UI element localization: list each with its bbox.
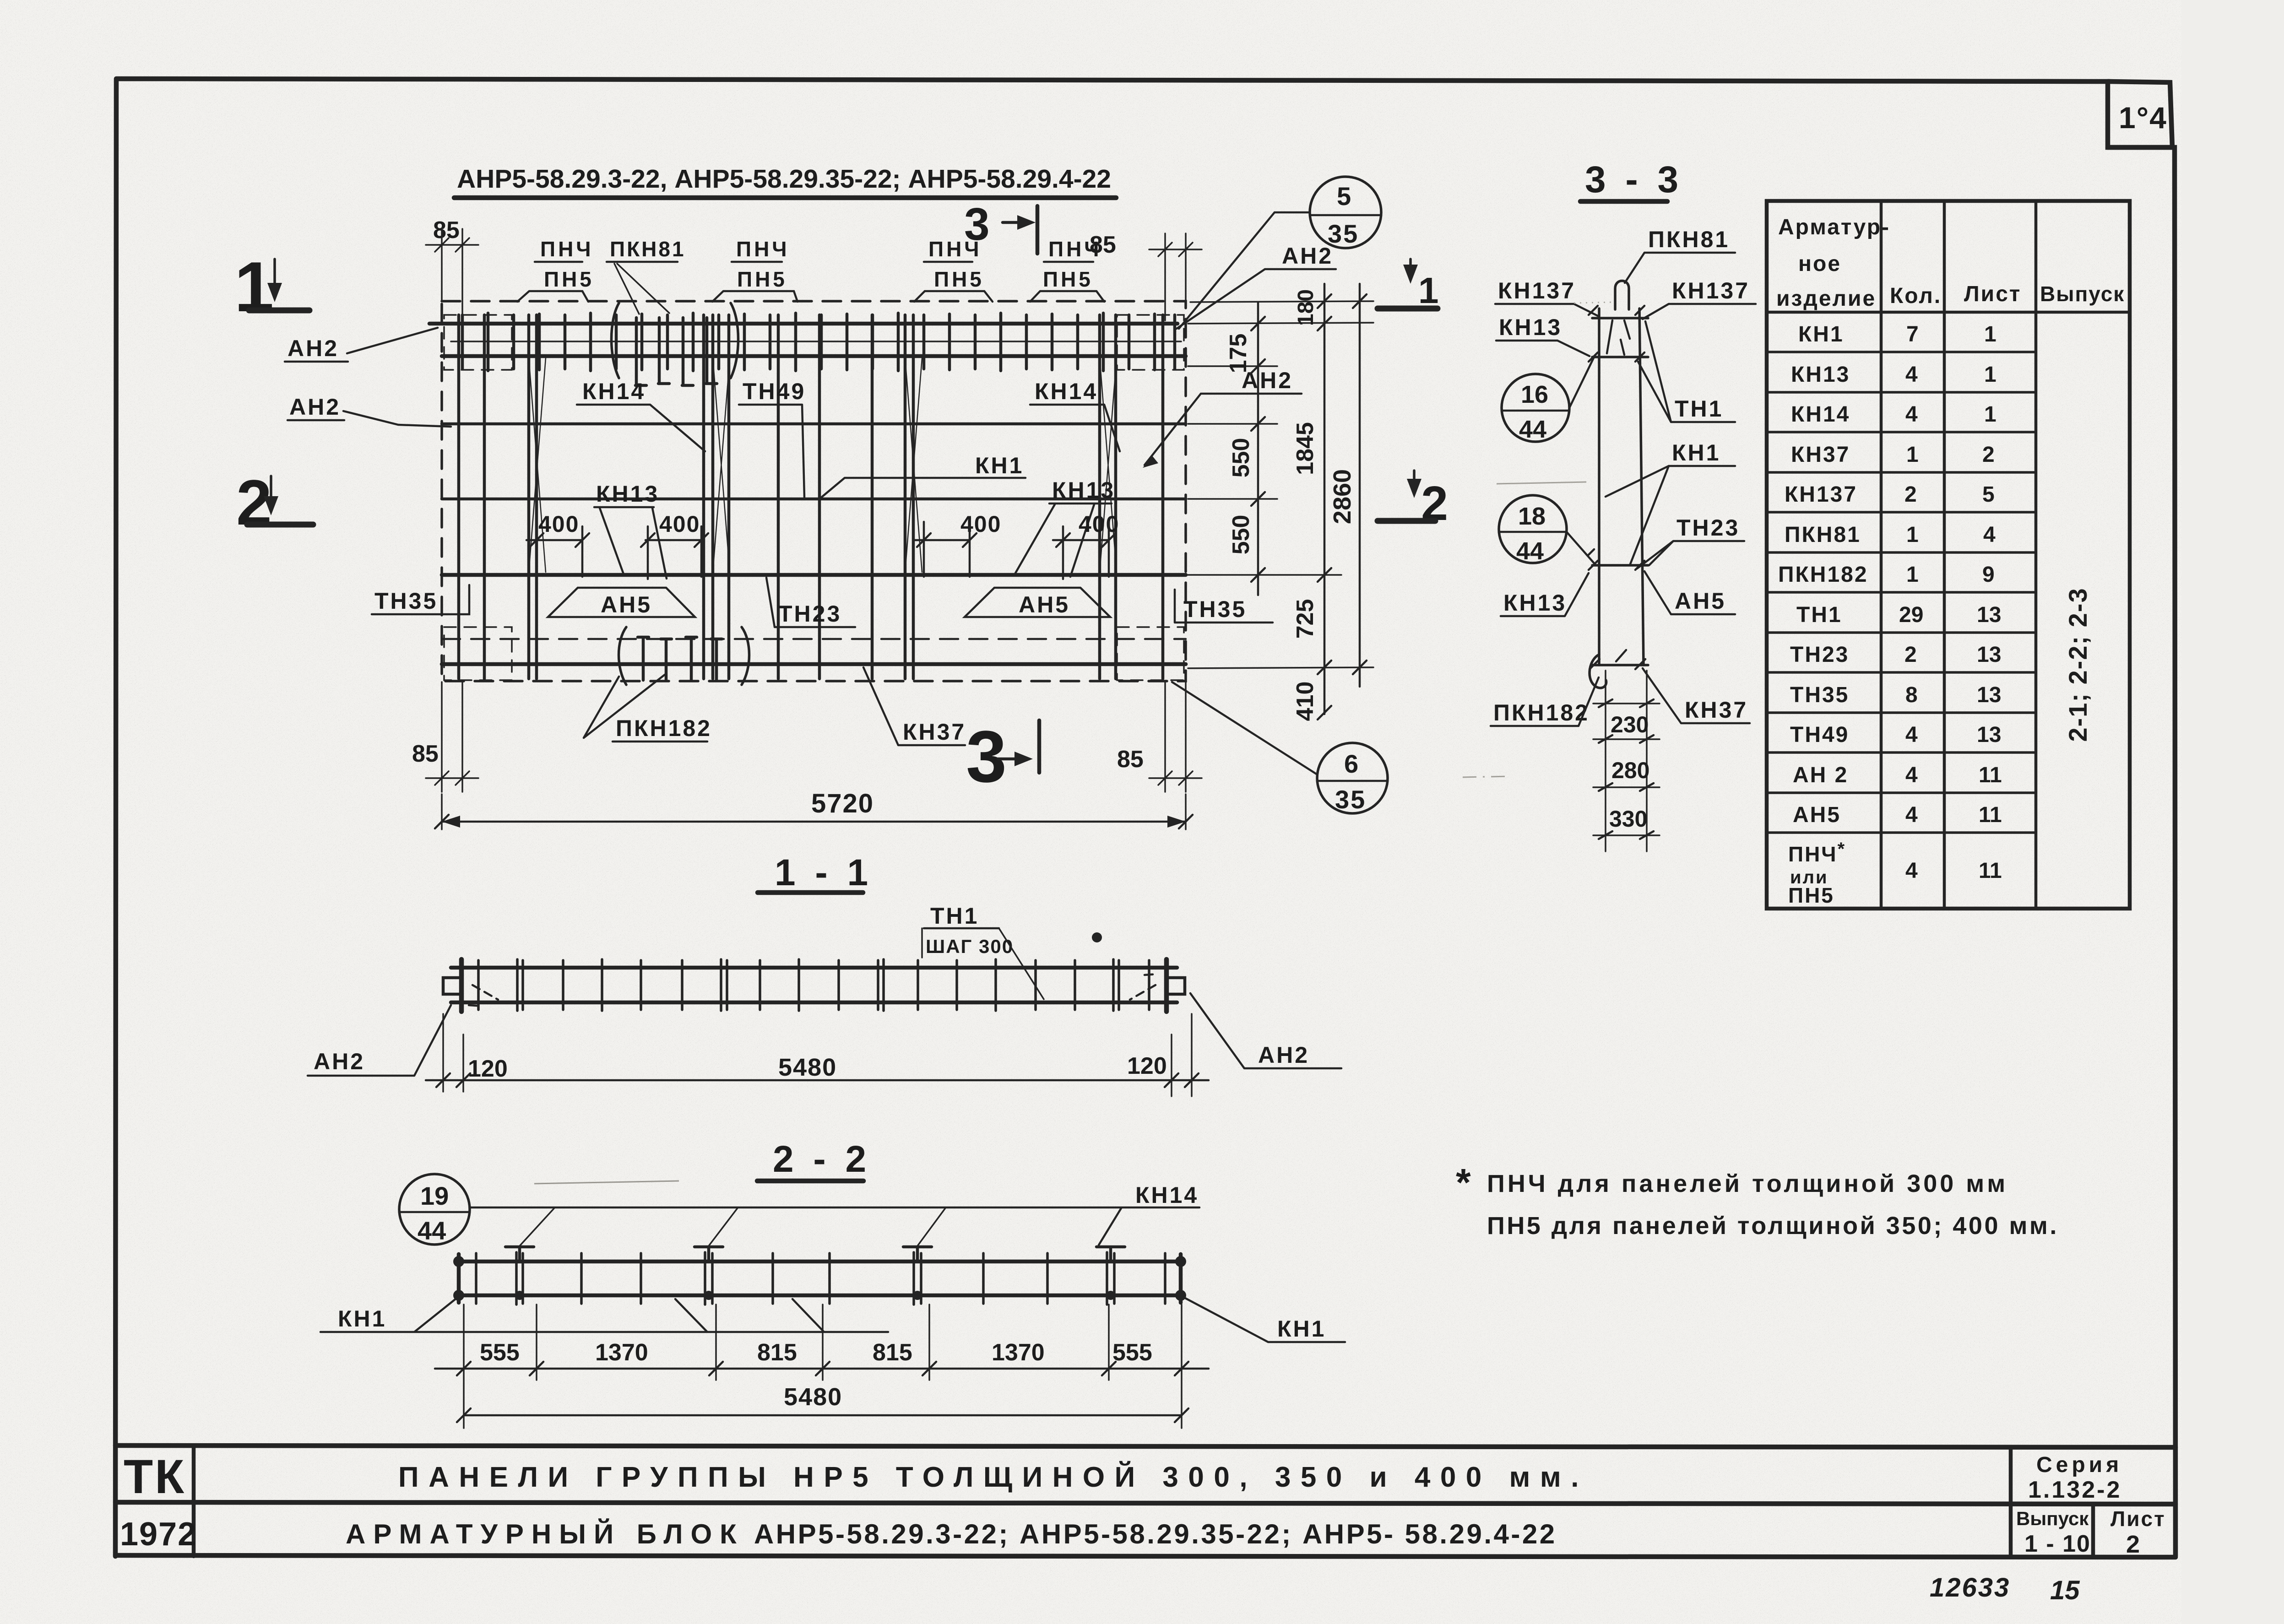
PKH81 hook group in top band [635, 318, 717, 385]
svg-text:13: 13 [1977, 683, 2001, 707]
svg-text:КН37: КН37 [1685, 697, 1748, 723]
svg-text:КН137: КН137 [1785, 482, 1857, 507]
svg-text:ПН5: ПН5 [934, 267, 984, 291]
svg-text:44: 44 [1519, 416, 1546, 443]
stirrup ticks on top band [462, 313, 1175, 371]
dim ticks 1-1 [436, 1073, 1199, 1087]
svg-text:2: 2 [1904, 643, 1917, 667]
svg-text:44: 44 [418, 1216, 446, 1245]
svg-text:4: 4 [1905, 763, 1918, 787]
faint pencil scratch in 3-3 [1497, 482, 1586, 484]
pin KH14 no4 [1096, 1247, 1125, 1261]
svg-text:АН2: АН2 [1258, 1042, 1309, 1068]
extension lines 2-2 [464, 1305, 1182, 1428]
column right edge [1639, 309, 1644, 665]
svg-text:АН2: АН2 [288, 336, 339, 361]
svg-text:Кол.: Кол. [1890, 284, 1942, 308]
label AH5 window2 trapezoid [965, 588, 1110, 617]
faint pencil scratch near 2-2 header [534, 1181, 679, 1184]
brace right of bottom hook group [742, 627, 749, 685]
leader TH1 [999, 928, 1044, 999]
svg-text:8: 8 [1905, 683, 1918, 707]
svg-text:4: 4 [1905, 363, 1918, 387]
svg-text:АН2: АН2 [314, 1049, 365, 1074]
svg-text:5: 5 [1982, 482, 1995, 507]
svg-text:ТК: ТК [124, 1450, 186, 1504]
svg-text:410: 410 [1292, 682, 1318, 721]
svg-text:ПКН182: ПКН182 [1493, 700, 1590, 725]
leaders PKH81 [614, 264, 669, 314]
svg-text:КН1: КН1 [1798, 322, 1844, 346]
svg-text:9: 9 [1982, 563, 1995, 587]
svg-text:Выпуск: Выпуск [2016, 1508, 2089, 1529]
svg-text:815: 815 [873, 1339, 912, 1366]
faint dotted lead from KH137 [1574, 302, 1615, 303]
dim chain 175-550-550 [1257, 302, 1259, 595]
svg-text:КН14: КН14 [582, 379, 646, 404]
svg-text:Лист: Лист [1964, 282, 2021, 306]
svg-text:КН13: КН13 [1499, 314, 1562, 340]
anchor bar AH2 top chord [429, 322, 1177, 326]
svg-text:280: 280 [1611, 758, 1649, 783]
top crossbar 2 [1592, 356, 1648, 358]
dashed anchor outline bottom-left [444, 627, 512, 680]
svg-text:4: 4 [1905, 803, 1918, 827]
beam 1-1 stirrups [478, 959, 1149, 1011]
svg-text:ПКН182: ПКН182 [616, 715, 712, 741]
dim line 1-1 [426, 1079, 1209, 1082]
svg-text:ПН5: ПН5 [737, 267, 787, 291]
svg-text:ПН5: ПН5 [1788, 883, 1834, 907]
beam 2-2 end bars [459, 1254, 1181, 1303]
dim chain 2-2 [435, 1368, 1209, 1370]
thin mid bar of top band [451, 341, 1181, 342]
brace left of bottom hook group [619, 627, 627, 685]
svg-text:18: 18 [1518, 503, 1546, 530]
title block vertical dividers [194, 1445, 2093, 1557]
svg-text:5480: 5480 [778, 1054, 837, 1081]
beam 1-1 end bars [461, 959, 1166, 1012]
svg-text:3 - 3: 3 - 3 [1585, 159, 1683, 200]
svg-text:180: 180 [1294, 289, 1318, 326]
svg-text:5720: 5720 [811, 789, 874, 818]
svg-text:11: 11 [1979, 859, 2002, 883]
dim ticks 3-3 [1599, 699, 1654, 839]
svg-text:АН5: АН5 [601, 592, 652, 617]
svg-text:400: 400 [960, 511, 1001, 537]
svg-text:ПКН81: ПКН81 [1648, 227, 1730, 252]
title block outline [115, 1445, 2175, 1557]
mesh bar row 5 window bottom [442, 573, 1186, 577]
top mesh bar [442, 354, 1186, 358]
svg-text:12633: 12633 [1930, 1573, 2010, 1602]
svg-text:ПКН81: ПКН81 [610, 237, 686, 261]
faint dash-dot pencil line left of 3-3 [1463, 776, 1511, 777]
beam 2-2 end weld dots [453, 1256, 464, 1267]
detail circle 6-35 [1317, 743, 1388, 813]
svg-text:ТН49: ТН49 [743, 379, 806, 404]
table row lines [1767, 352, 2036, 833]
svg-text:13: 13 [1977, 603, 2001, 627]
section mark 2 right [1413, 471, 1416, 488]
svg-text:ное: ное [1798, 252, 1841, 276]
svg-text:555: 555 [480, 1339, 520, 1366]
svg-text:16: 16 [1521, 381, 1548, 408]
svg-text:ПН5: ПН5 [544, 267, 594, 291]
stirrup weld dots 2-2 [515, 1291, 524, 1300]
svg-text:2: 2 [1982, 443, 1995, 467]
svg-text:АН5: АН5 [1675, 588, 1726, 614]
table outer border [1767, 201, 2130, 909]
detail circle 19-44 [399, 1174, 470, 1245]
svg-text:5480: 5480 [784, 1383, 842, 1411]
dashed weld mark left [469, 985, 498, 1006]
top crossbar 1 [1592, 317, 1648, 319]
extension lines 1-1 [443, 1014, 1192, 1096]
cross ticks mid [1589, 549, 1644, 570]
svg-text:ТН1: ТН1 [1675, 396, 1723, 422]
bottom crossbar [1592, 664, 1648, 666]
leader circle 16-44 [1569, 358, 1594, 408]
svg-text:1845: 1845 [1292, 422, 1318, 475]
leader to detail circle 5-35 [1179, 212, 1310, 329]
right scan edge shading [2181, 0, 2284, 1624]
svg-text:АНР5-58.29.3-22, АНР5-58.29.35: АНР5-58.29.3-22, АНР5-58.29.35-22; АНР5-… [457, 164, 1111, 194]
svg-text:ТН35: ТН35 [374, 588, 438, 614]
svg-text:АН2: АН2 [1282, 243, 1333, 269]
column left edge [1598, 309, 1600, 665]
svg-text:550: 550 [1228, 438, 1254, 478]
dim chain 180-1845-725-410 [1324, 284, 1326, 714]
dim ticks 2-2 [457, 1362, 1188, 1375]
detail circle 18-44 [1499, 495, 1567, 563]
svg-text:КН137: КН137 [1498, 278, 1576, 303]
panel outline dashed [442, 301, 1186, 681]
brace right of hook group [731, 303, 738, 378]
svg-text:400: 400 [538, 511, 579, 537]
svg-text:555: 555 [1112, 1339, 1152, 1366]
svg-text:КН37: КН37 [1791, 443, 1850, 467]
svg-text:ПНЧ: ПНЧ [736, 237, 790, 261]
svg-text:ТН35: ТН35 [1790, 683, 1849, 707]
svg-text:КН1: КН1 [1277, 1316, 1326, 1342]
bent bar cross window1 right [713, 358, 730, 572]
svg-text:1972: 1972 [120, 1516, 197, 1553]
svg-text:1: 1 [1984, 322, 1996, 346]
beam 1-1 left anchor hook [443, 978, 461, 994]
leader to detail circle 6-35 [1172, 682, 1317, 774]
svg-text:ТН23: ТН23 [778, 601, 841, 627]
svg-text:85: 85 [1090, 232, 1116, 258]
pin KH14 no2 [694, 1247, 723, 1261]
svg-text:КН1: КН1 [338, 1306, 386, 1332]
svg-text:ПНЧ*: ПНЧ* [1788, 839, 1846, 866]
svg-text:120: 120 [468, 1056, 508, 1082]
svg-text:2-1; 2-2; 2-3: 2-1; 2-2; 2-3 [2063, 587, 2092, 742]
svg-text:ПАНЕЛИ ГРУППЫ НР5 ТОЛЩИНОЙ: ПАНЕЛИ ГРУППЫ НР5 ТОЛЩИНОЙ 300, 350 и 40… [398, 1461, 1589, 1493]
svg-text:85: 85 [1117, 746, 1144, 773]
svg-text:4: 4 [1983, 523, 1996, 547]
svg-text:44: 44 [1516, 537, 1544, 565]
label AH5 window1 trapezoid [548, 588, 695, 617]
bent bar cross window2 right [1100, 358, 1117, 572]
svg-text:6: 6 [1344, 749, 1358, 778]
svg-text:230: 230 [1611, 712, 1649, 737]
mesh bar row 4 [442, 498, 1186, 501]
svg-text:КН14: КН14 [1791, 402, 1850, 427]
svg-text:330: 330 [1609, 806, 1647, 832]
cross ticks top [1589, 306, 1644, 362]
svg-text:ТН35: ТН35 [1183, 596, 1247, 622]
svg-text:изделие: изделие [1776, 287, 1876, 311]
svg-text:ПНЧ: ПНЧ [540, 237, 594, 261]
svg-text:400: 400 [659, 511, 700, 537]
svg-text:725: 725 [1292, 599, 1318, 639]
dim chain 2860 [1359, 284, 1361, 687]
beam 1-1 top chord [451, 966, 1177, 970]
svg-text:АН 2: АН 2 [1793, 763, 1848, 787]
svg-text:120: 120 [1127, 1053, 1167, 1079]
bent bar cross window1 left [529, 358, 546, 572]
svg-text:КН1: КН1 [975, 453, 1024, 478]
svg-text:КН14: КН14 [1135, 1182, 1199, 1208]
svg-text:*: * [1456, 1161, 1471, 1204]
beam 2-2 bottom chord [458, 1294, 1182, 1298]
svg-text:3: 3 [964, 199, 990, 250]
pin KH14 no1 [505, 1247, 534, 1261]
svg-text:1370: 1370 [992, 1339, 1045, 1366]
ties in top box [1607, 320, 1630, 355]
svg-text:35: 35 [1335, 785, 1366, 814]
svg-text:815: 815 [757, 1339, 797, 1366]
svg-text:13: 13 [1977, 643, 2001, 667]
beam 2-2 stirrups [476, 1252, 1165, 1305]
svg-text:2860: 2860 [1329, 469, 1356, 524]
svg-text:550: 550 [1228, 515, 1254, 555]
svg-text:13: 13 [1977, 723, 2001, 747]
detail circle 16-44 [1502, 374, 1569, 442]
dashed anchor outline top-left [444, 315, 512, 370]
svg-text:ТН49: ТН49 [1790, 723, 1849, 747]
svg-text:ТН1: ТН1 [930, 903, 979, 929]
svg-text:4: 4 [1905, 402, 1918, 427]
svg-text:1370: 1370 [595, 1339, 648, 1366]
svg-text:КН14: КН14 [1035, 379, 1098, 404]
svg-text:1 - 10: 1 - 10 [2024, 1531, 2091, 1557]
vertical bars [459, 315, 1163, 679]
bottom bar KH37 [442, 662, 1186, 666]
svg-text:85: 85 [412, 741, 439, 767]
dashed anchor outline top-right [1117, 315, 1184, 370]
svg-text:4: 4 [1905, 859, 1918, 883]
svg-text:ПН5: ПН5 [1043, 267, 1093, 291]
beam 1-1 bottom chord [451, 1001, 1177, 1005]
svg-text:АН5: АН5 [1793, 803, 1841, 827]
bent bar cross window2 left [905, 358, 922, 572]
svg-text:1: 1 [1984, 402, 1996, 427]
svg-text:КН137: КН137 [1672, 278, 1750, 303]
svg-text:11: 11 [1979, 803, 2002, 827]
svg-text:ТН1: ТН1 [1796, 603, 1842, 627]
svg-text:АН2: АН2 [289, 394, 341, 420]
svg-text:КН13: КН13 [1791, 363, 1850, 387]
mid crossbar [1592, 564, 1648, 567]
svg-text:2 - 2: 2 - 2 [773, 1138, 871, 1180]
svg-text:Серия: Серия [2036, 1453, 2122, 1477]
svg-text:11: 11 [1979, 763, 2002, 787]
svg-text:4: 4 [1905, 723, 1918, 747]
inner dashed line of bottom band [442, 638, 1186, 640]
beam 2-2 top chord [458, 1260, 1182, 1264]
top hook PKH81 [1615, 281, 1629, 310]
svg-text:ПН5 для панелей толщиной 3: ПН5 для панелей толщиной 350; 400 мм. [1487, 1212, 2059, 1240]
svg-text:175: 175 [1225, 334, 1252, 374]
svg-text:3: 3 [966, 715, 1007, 797]
svg-text:1: 1 [1906, 563, 1919, 587]
section mark 1 right [1409, 259, 1412, 275]
svg-text:Арматур-: Арматур- [1778, 215, 1890, 239]
svg-text:7: 7 [1906, 322, 1919, 346]
svg-text:2: 2 [1904, 482, 1917, 507]
svg-text:КН13: КН13 [1503, 590, 1567, 616]
svg-text:КН1: КН1 [1672, 440, 1720, 466]
svg-text:Лист: Лист [2110, 1507, 2166, 1531]
svg-text:ПКН182: ПКН182 [1778, 563, 1868, 587]
ink dot [1092, 932, 1102, 942]
beam 1-1 right anchor hook [1166, 978, 1185, 994]
svg-text:1: 1 [1906, 523, 1919, 547]
bottom hook PKH182 [1590, 655, 1606, 688]
svg-text:19: 19 [420, 1181, 449, 1210]
extension lines right of plan [1188, 301, 1373, 668]
pin KH14 no3 [903, 1247, 932, 1261]
svg-text:ПКН81: ПКН81 [1785, 523, 1861, 547]
svg-text:1 - 1: 1 - 1 [775, 852, 873, 893]
svg-text:2: 2 [2126, 1531, 2140, 1558]
brace left of hook group [612, 303, 619, 378]
svg-text:Выпуск: Выпуск [2040, 282, 2125, 306]
dashed weld mark right [1130, 974, 1157, 1000]
title underline [454, 195, 1116, 200]
svg-text:АН5: АН5 [1019, 592, 1070, 617]
svg-text:1: 1 [234, 247, 274, 326]
svg-text:400: 400 [1079, 511, 1119, 537]
svg-text:1: 1 [1418, 270, 1439, 311]
svg-text:КН13: КН13 [596, 481, 659, 507]
svg-text:ТН23: ТН23 [1790, 643, 1849, 667]
detail circle 5-35 [1310, 177, 1381, 248]
svg-text:ПНЧ для панелей толщиной 3: ПНЧ для панелей толщиной 300 мм [1487, 1170, 2008, 1197]
svg-text:КН37: КН37 [903, 719, 966, 745]
dim extension lines 3-3 [1606, 671, 1647, 851]
table header bottom line [1767, 311, 2130, 314]
sheet number box top-right [2108, 81, 2172, 147]
svg-text:ТН23: ТН23 [1676, 515, 1740, 541]
leader circle 18-44 [1567, 532, 1596, 565]
svg-text:КН13: КН13 [1052, 477, 1115, 503]
bottom tick marks [1590, 650, 1645, 669]
leaders from KH14 line to pins [520, 1207, 946, 1246]
svg-text:АРМАТУРНЫЙ БЛОК АНР5-58.29: АРМАТУРНЫЙ БЛОК АНР5-58.29.3-22; АНР5-58… [346, 1519, 1557, 1549]
PKH182 hook group in bottom band [638, 637, 722, 680]
svg-text:1: 1 [1906, 443, 1919, 467]
table column dividers [1881, 201, 2036, 909]
svg-text:1°4: 1°4 [2119, 101, 2167, 135]
dim 5480 line 2-2 [464, 1414, 1182, 1417]
svg-text:1.132-2: 1.132-2 [2028, 1477, 2121, 1503]
svg-text:15: 15 [2050, 1575, 2080, 1605]
svg-text:29: 29 [1899, 603, 1923, 627]
mesh bar row 3 [442, 422, 1186, 426]
dashed anchor outline bottom-right [1117, 627, 1184, 680]
svg-text:ШАГ 300: ШАГ 300 [926, 936, 1014, 957]
svg-text:1: 1 [1984, 363, 1996, 387]
svg-text:5: 5 [1337, 182, 1351, 211]
